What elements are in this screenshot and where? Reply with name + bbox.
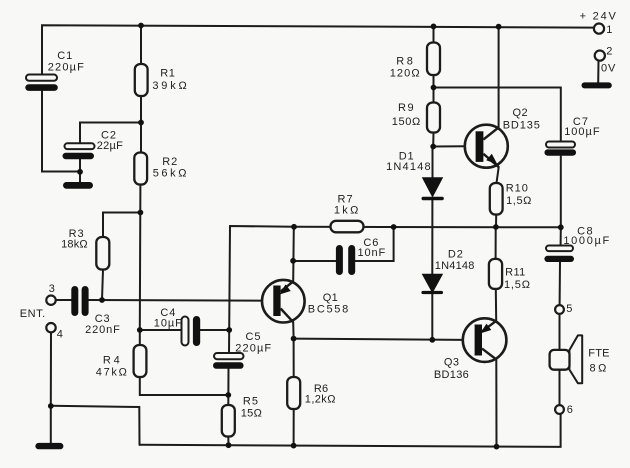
svg-text:1000µF: 1000µF — [563, 235, 610, 247]
node R1 R2 C2 — [138, 120, 144, 126]
wire Q3 collector down — [495, 359, 497, 446]
wire C8 top stub — [560, 227, 562, 246]
terminal 3 input — [46, 296, 55, 305]
wire output rail — [294, 226, 561, 229]
svg-text:22µF: 22µF — [97, 140, 123, 152]
capacitor C4 10uF electrolytic horizontal — [182, 317, 189, 346]
wire terminal 5 to speaker — [559, 314, 561, 351]
svg-text:6: 6 — [567, 404, 574, 416]
resistor R10 1.5 — [490, 183, 503, 215]
svg-text:D2: D2 — [448, 249, 464, 261]
svg-text:220µF: 220µF — [48, 61, 85, 73]
svg-text:BD135: BD135 — [503, 120, 541, 132]
wire C6 right stub — [356, 227, 394, 261]
svg-text:1,2kΩ: 1,2kΩ — [305, 394, 336, 406]
wire terminal 4 node to ground bar — [50, 406, 52, 444]
wire Q1 emitter up — [292, 227, 295, 282]
svg-text:56kΩ: 56kΩ — [153, 168, 189, 180]
svg-text:BC558: BC558 — [308, 303, 350, 315]
svg-text:39kΩ: 39kΩ — [152, 80, 189, 92]
node R9 D1 Q2 base — [430, 144, 436, 150]
svg-text:R1: R1 — [160, 67, 175, 79]
resistor R11 1.5 — [489, 259, 502, 289]
svg-text:R10: R10 — [506, 183, 529, 195]
wire C4 left stub — [140, 329, 182, 331]
transistor Q1 BC558 — [262, 280, 305, 323]
svg-text:2: 2 — [606, 46, 613, 58]
wire D2 cathode to Q3 base wire — [431, 293, 433, 340]
capacitor C7 100uF electrolytic — [546, 142, 575, 148]
wire C5 top stub — [228, 330, 230, 353]
resistor R4 47k — [134, 345, 147, 377]
svg-text:R8: R8 — [396, 56, 415, 68]
node C4 C5 feedback — [226, 327, 232, 333]
capacitor C8 1000uF electrolytic — [546, 246, 573, 252]
wire ground rail — [140, 414, 561, 447]
wire Q1 collector to Q3 base — [294, 339, 463, 340]
capacitor C6 10nF — [336, 245, 343, 275]
node Q1 emitter R7 — [291, 224, 297, 230]
svg-text:10nF: 10nF — [358, 247, 387, 259]
svg-text:18kΩ: 18kΩ — [61, 238, 88, 250]
svg-text:C5: C5 — [246, 331, 262, 343]
svg-text:4: 4 — [57, 328, 64, 340]
wire top supply rail — [42, 25, 594, 74]
node top rail Q2 collector — [496, 24, 502, 30]
wire terminal 2 to ground — [597, 61, 599, 83]
node output R10 R11 — [493, 224, 499, 230]
capacitor C1 220uF electrolytic — [26, 75, 57, 81]
wire left drop C1 to corner — [42, 91, 80, 172]
svg-text:1N4148: 1N4148 — [435, 260, 475, 272]
svg-text:1,5Ω: 1,5Ω — [504, 279, 531, 291]
node C4 R4 — [137, 327, 143, 333]
svg-text:1kΩ: 1kΩ — [334, 205, 361, 217]
wire R3 bottom to input node — [102, 270, 103, 301]
svg-text:47kΩ: 47kΩ — [96, 367, 129, 379]
svg-text:15Ω: 15Ω — [241, 407, 263, 419]
node R8 R9 C7 — [431, 85, 437, 91]
wire D1 cathode to D2 anode — [431, 200, 433, 275]
svg-text:0V: 0V — [601, 63, 616, 75]
wire bootstrap horizontal — [434, 88, 561, 142]
resistor R9 150 — [427, 103, 440, 133]
svg-text:100µF: 100µF — [564, 126, 600, 138]
svg-text:8Ω: 8Ω — [590, 363, 609, 375]
wire bottom left run — [51, 406, 140, 445]
wire Q2 emitter to R10 — [497, 167, 499, 183]
wire R1 bottom to R2 top — [140, 96, 142, 153]
svg-text:R11: R11 — [505, 267, 526, 279]
wire R3 top branch — [103, 213, 140, 238]
capacitor C2 22uF electrolytic — [65, 143, 95, 149]
diode D1 1N4148 — [423, 178, 443, 197]
svg-text:FTE: FTE — [588, 348, 609, 360]
ground below terminal 2 — [582, 82, 612, 88]
wire R8 bottom node — [433, 75, 435, 103]
ground below C2 — [63, 182, 93, 189]
node R7 C6 right — [391, 224, 397, 230]
svg-text:1: 1 — [606, 24, 613, 36]
node R6 ground rail — [291, 443, 297, 449]
resistor R6 1.2k — [287, 377, 300, 409]
wire speaker to terminal 6 — [559, 369, 561, 406]
svg-text:120Ω: 120Ω — [390, 68, 421, 80]
resistor R5 15 — [222, 405, 235, 437]
node top rail R8 — [431, 24, 437, 30]
wire C3 to Q1 base — [89, 299, 274, 302]
svg-text:220µF: 220µF — [235, 343, 272, 355]
wire R5 bottom — [227, 437, 229, 446]
svg-text:5: 5 — [566, 303, 573, 315]
svg-text:R9: R9 — [398, 102, 415, 114]
speaker FTE — [550, 335, 583, 383]
terminal 2 0V — [595, 51, 605, 61]
wire R2 bottom down to C4 node — [139, 185, 142, 331]
node terminal4 ground — [48, 403, 54, 409]
node C3 R3 — [99, 297, 105, 303]
transistor Q3 BD136 — [463, 318, 507, 362]
resistor R8 120 — [427, 43, 440, 76]
resistor R3 18k — [96, 237, 109, 270]
svg-text:C1: C1 — [57, 50, 73, 62]
wire C8 bottom to terminal 5 — [559, 262, 561, 305]
svg-text:1N4148: 1N4148 — [386, 161, 432, 173]
resistor R1 39k — [135, 64, 148, 96]
svg-text:3: 3 — [49, 283, 56, 295]
node C1 C2 ground — [77, 169, 83, 175]
wire Q2 collector up — [498, 27, 500, 128]
terminal 1 +24V — [594, 24, 604, 34]
wire R6 top — [293, 339, 295, 377]
wire D1 anode — [432, 147, 434, 178]
node R4 C5 R5 — [225, 392, 231, 398]
diode D2 1N4148 — [423, 274, 443, 292]
wire C4 right stub — [200, 329, 229, 331]
wire C5 bottom stub — [227, 369, 229, 405]
capacitor C3 220nF — [71, 286, 78, 316]
ground bottom left — [35, 443, 63, 449]
wire feedback vertical — [229, 226, 294, 330]
svg-text:R5: R5 — [243, 395, 259, 407]
svg-text:Q2: Q2 — [513, 107, 528, 119]
wire Q2 base — [433, 145, 465, 147]
svg-text:BD136: BD136 — [434, 369, 469, 381]
wire R8 top — [433, 26, 435, 42]
node D2 Q3 base — [429, 337, 435, 343]
node Q3 collector ground rail — [494, 444, 500, 450]
node top rail R1 — [138, 23, 144, 29]
wire C2 bottom to ground — [79, 159, 81, 183]
transistor Q2 BD135 — [465, 125, 508, 168]
wire R9 bottom node — [432, 133, 434, 147]
svg-text:R4: R4 — [103, 354, 123, 366]
wire C4 node to R4 — [139, 330, 141, 345]
wire R11 bottom to Q3 emitter — [495, 289, 497, 321]
resistor R2 56k — [134, 153, 147, 185]
node R2 R3 — [138, 210, 144, 216]
wire R11 top — [495, 227, 497, 259]
svg-text:+ 24V: + 24V — [580, 10, 618, 22]
svg-text:150Ω: 150Ω — [392, 116, 421, 128]
wire R1 top — [140, 25, 142, 64]
wire input terminal 3 to C3 — [56, 299, 72, 301]
resistor R7 1k horizontal — [331, 221, 364, 233]
wire C7 bottom to output — [560, 156, 562, 227]
node output C7 C8 — [558, 224, 564, 230]
capacitor C5 220uF electrolytic — [214, 353, 244, 359]
node R5 ground rail — [226, 442, 232, 448]
wire terminal 4 down — [50, 333, 52, 406]
svg-text:Q3: Q3 — [444, 357, 459, 369]
svg-text:10µF: 10µF — [154, 317, 183, 329]
terminal 5 speaker — [555, 305, 564, 314]
terminal 4 input — [46, 323, 55, 332]
svg-text:Q1: Q1 — [323, 292, 338, 304]
wire R6 bottom — [293, 409, 295, 446]
wire C6 left stub — [294, 260, 336, 262]
svg-text:R2: R2 — [162, 156, 178, 168]
wire C2 top branch — [80, 123, 141, 144]
terminal 6 speaker — [555, 405, 564, 414]
svg-text:ENT.: ENT. — [20, 308, 46, 320]
node Q1 emitter C6 — [290, 258, 296, 264]
wire R4 bottom to C5 node — [140, 377, 229, 395]
wire Q1 collector down — [292, 322, 294, 339]
svg-text:220nF: 220nF — [85, 324, 121, 336]
wire R10 bottom — [495, 215, 497, 228]
svg-text:1,5Ω: 1,5Ω — [506, 195, 532, 207]
node Q1 collector Q3 base — [291, 336, 297, 342]
